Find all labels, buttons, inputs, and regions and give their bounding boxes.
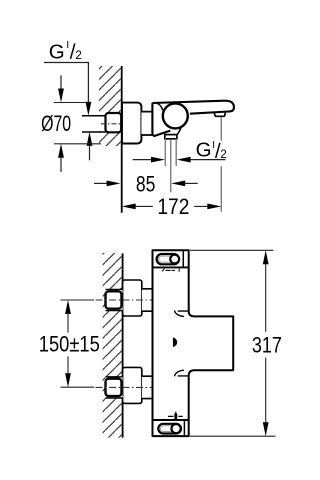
svg-text:150±15: 150±15 <box>39 332 100 357</box>
label G1/2 (outlet) <box>196 138 227 161</box>
svg-text:I: I <box>212 140 215 151</box>
flange-to-body pipe <box>141 112 152 135</box>
bottom cap lever pill <box>158 424 181 434</box>
nut centerline <box>101 123 121 125</box>
thermostat knob circle <box>163 103 188 128</box>
150±15 lower arrow <box>65 356 71 387</box>
bottom cap edge <box>153 419 189 421</box>
lower hook curve <box>175 370 189 376</box>
wall hatch (top view) <box>99 66 121 146</box>
outlet G1/2 left arrow <box>133 157 165 163</box>
317 upper arrow <box>263 250 269 264</box>
mixer body silhouette <box>153 250 234 436</box>
317 lower arrow <box>263 422 269 436</box>
dimension 172 <box>122 194 222 219</box>
upper inlet centerline <box>96 299 153 301</box>
wall face line (bottom view) <box>122 253 124 437</box>
spout <box>152 101 234 114</box>
317 dimension line <box>265 264 267 423</box>
aerator / mousseur <box>214 112 226 116</box>
wall face line (top view) <box>121 66 123 213</box>
svg-text:172: 172 <box>157 194 189 219</box>
lower inlet nut <box>106 379 122 396</box>
pipe bottom arrow (up) <box>87 132 93 160</box>
top cap lever pill <box>157 254 179 264</box>
top cap edge <box>153 266 189 268</box>
svg-text:I: I <box>66 39 69 51</box>
svg-text:G: G <box>49 41 65 64</box>
150±15 upper arrow <box>65 300 71 333</box>
union nut (top view) <box>106 113 122 132</box>
bottom pill knob circle <box>172 424 181 433</box>
G1/2 leader arrow (down) <box>86 102 92 116</box>
escutcheon flange <box>122 103 141 144</box>
outlet centerline / 85 extension <box>170 139 172 193</box>
outlet tangent line <box>177 128 181 134</box>
top pill knob circle <box>170 255 179 264</box>
dimension 85 <box>94 171 198 196</box>
upper hook curve <box>175 310 189 316</box>
dia70 dimension ticks <box>54 103 101 144</box>
lower inlet centerline <box>96 386 153 388</box>
flow marks <box>168 412 183 419</box>
svg-text:G: G <box>196 138 212 161</box>
svg-text:317: 317 <box>252 333 282 358</box>
svg-text:Ø70: Ø70 <box>41 111 71 136</box>
upper inlet union <box>106 280 153 316</box>
top cap seam <box>182 250 184 267</box>
svg-text:85: 85 <box>136 171 156 196</box>
bottom cap seam <box>183 420 185 436</box>
dia70 lower arrow <box>58 144 64 172</box>
wall hatch (bottom view) <box>103 253 122 438</box>
outlet pipe <box>165 139 176 167</box>
G1/2 leader underline + drop <box>44 63 88 104</box>
temperature scale marks <box>162 269 179 272</box>
172 extension / drip line <box>220 117 222 212</box>
dia70 upper arrow <box>58 75 64 102</box>
svg-text:2: 2 <box>75 50 81 62</box>
outlet nut <box>165 135 177 139</box>
dimension 150±15 ticks <box>61 300 95 387</box>
outlet G1/2 right arrow + underline <box>177 157 226 163</box>
dimension 317 ticks <box>190 250 276 436</box>
label G1/2 (upper left) <box>49 39 82 63</box>
top pill inner <box>159 256 177 262</box>
supply pipe in wall <box>82 116 106 132</box>
body block left edge <box>152 103 170 136</box>
upper inlet nut <box>106 291 122 308</box>
bottom pill inner <box>160 426 179 432</box>
logo D-mark <box>173 337 177 347</box>
lower inlet union <box>106 367 153 403</box>
left fillet curve <box>157 103 163 110</box>
